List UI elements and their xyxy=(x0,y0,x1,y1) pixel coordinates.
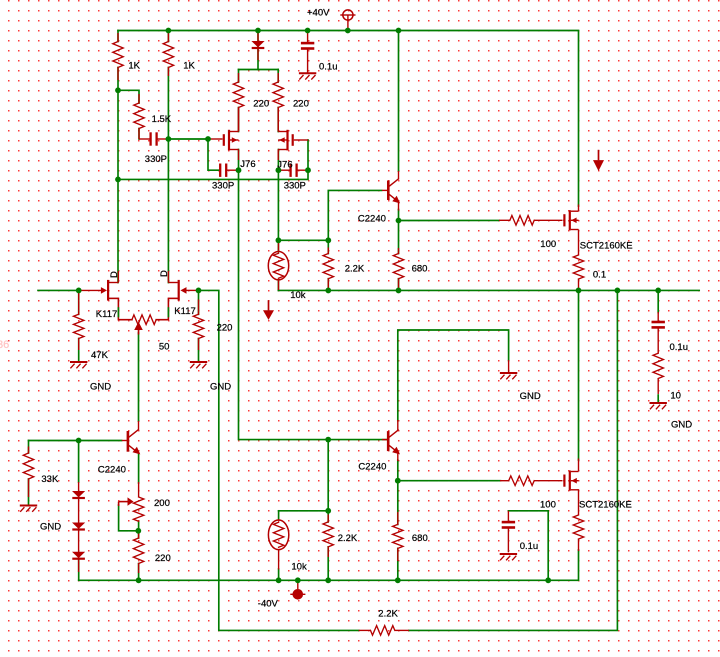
svg-text:330P: 330P xyxy=(145,154,167,165)
svg-text:GND: GND xyxy=(90,382,111,393)
svg-text:0.1: 0.1 xyxy=(593,270,606,281)
svg-text:47K: 47K xyxy=(91,350,109,361)
svg-text:GND: GND xyxy=(40,522,61,533)
svg-text:D: D xyxy=(109,271,120,278)
svg-text:330P: 330P xyxy=(212,181,234,192)
svg-text:0.1u: 0.1u xyxy=(319,62,338,73)
svg-text:10k: 10k xyxy=(291,562,307,573)
svg-text:K117: K117 xyxy=(96,309,117,320)
svg-text:33K: 33K xyxy=(41,474,59,485)
svg-text:2.2K: 2.2K xyxy=(345,264,365,275)
svg-text:2.2K: 2.2K xyxy=(378,609,398,620)
svg-text:220: 220 xyxy=(293,99,309,110)
svg-text:1K: 1K xyxy=(183,61,195,72)
svg-text:C2240: C2240 xyxy=(358,462,386,473)
svg-text:680: 680 xyxy=(412,264,428,275)
svg-text:100: 100 xyxy=(540,499,556,510)
svg-text:1.5K: 1.5K xyxy=(152,114,172,125)
svg-text:GND: GND xyxy=(671,420,692,431)
svg-text:36: 36 xyxy=(0,339,9,351)
svg-text:0.1u: 0.1u xyxy=(670,342,689,353)
svg-text:-40V: -40V xyxy=(258,599,279,610)
svg-text:J76: J76 xyxy=(277,160,292,171)
svg-text:+40V: +40V xyxy=(307,8,330,19)
svg-text:0.1u: 0.1u xyxy=(520,541,539,552)
svg-text:SCT2160KE: SCT2160KE xyxy=(579,500,632,511)
svg-text:50: 50 xyxy=(159,342,170,353)
svg-text:D: D xyxy=(159,270,170,277)
svg-text:J76: J76 xyxy=(240,159,255,170)
svg-text:680: 680 xyxy=(412,533,428,544)
svg-text:C2240: C2240 xyxy=(358,213,386,224)
svg-text:2.2K: 2.2K xyxy=(338,533,358,544)
svg-text:330P: 330P xyxy=(284,181,306,192)
svg-text:K117: K117 xyxy=(174,306,195,317)
svg-text:100: 100 xyxy=(540,239,556,250)
svg-text:220: 220 xyxy=(253,99,269,110)
svg-text:200: 200 xyxy=(154,498,170,509)
svg-text:10k: 10k xyxy=(290,290,306,301)
svg-text:GND: GND xyxy=(520,391,541,402)
svg-text:220: 220 xyxy=(155,553,171,564)
svg-text:220: 220 xyxy=(217,323,233,334)
svg-text:SCT2160KE: SCT2160KE xyxy=(580,241,633,252)
svg-text:10: 10 xyxy=(670,391,681,402)
svg-text:1K: 1K xyxy=(128,61,140,72)
svg-text:GND: GND xyxy=(210,382,231,393)
svg-text:C2240: C2240 xyxy=(98,464,126,475)
